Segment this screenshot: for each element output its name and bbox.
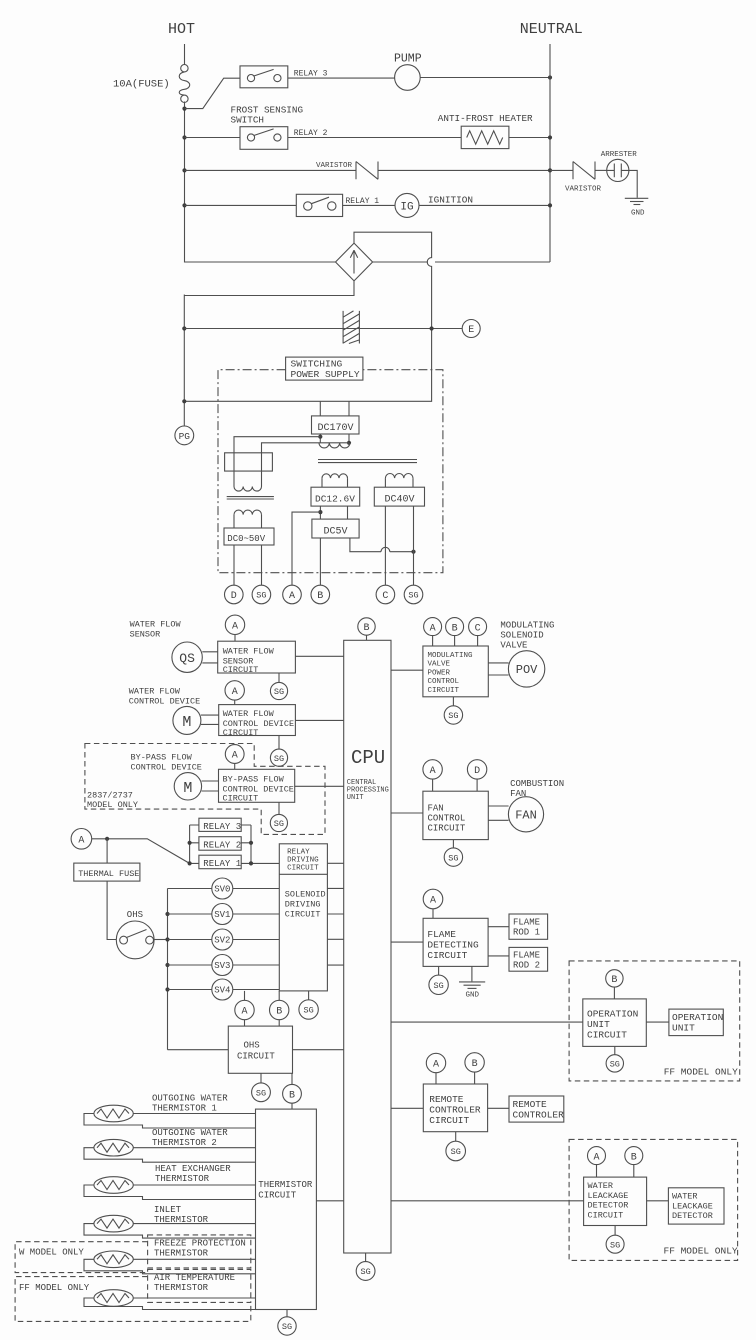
svg-text:RELAY: RELAY bbox=[287, 849, 310, 857]
svg-text:NEUTRAL: NEUTRAL bbox=[520, 21, 583, 38]
thermistor TH5 bbox=[94, 1251, 133, 1268]
terminal A mod bbox=[424, 618, 442, 636]
svg-text:THERMISTOR: THERMISTOR bbox=[258, 1180, 313, 1190]
wire CPU to fan box bbox=[391, 812, 423, 814]
svg-text:UNIT: UNIT bbox=[672, 1023, 695, 1034]
terminal B ohs bbox=[270, 1000, 289, 1019]
flame rod 1 box bbox=[509, 914, 548, 939]
wire NEUTRAL column bbox=[549, 44, 551, 262]
terminal A flame bbox=[423, 889, 443, 909]
wire TH1 loop bbox=[84, 1114, 256, 1129]
wire relay1 to IG bbox=[343, 204, 395, 206]
modulating valve power control circuit box bbox=[423, 646, 488, 697]
wire E line bbox=[184, 328, 462, 330]
junction relay left bus r2 bbox=[188, 841, 192, 845]
wire ohs box to SG below bbox=[260, 1073, 262, 1083]
terminal A wfcd bbox=[225, 681, 244, 700]
wire M bypass to box double bbox=[202, 781, 219, 791]
label DC170V box bbox=[312, 416, 360, 434]
svg-text:DC12.6V: DC12.6V bbox=[315, 494, 355, 505]
svg-text:B: B bbox=[631, 1152, 637, 1163]
svg-text:SWITCHING: SWITCHING bbox=[291, 359, 343, 370]
junction relay left bus r1 bbox=[188, 861, 192, 865]
svg-text:A: A bbox=[78, 836, 84, 847]
svg-text:COMBUSTION: COMBUSTION bbox=[510, 779, 564, 789]
svg-text:CIRCUIT: CIRCUIT bbox=[223, 793, 259, 803]
svg-text:CONTROLER: CONTROLER bbox=[429, 1105, 481, 1116]
junction E right vertical bbox=[430, 326, 434, 330]
water leackage detector box bbox=[668, 1188, 724, 1224]
svg-text:MODULATING: MODULATING bbox=[428, 652, 474, 660]
svg-text:SOLENOID: SOLENOID bbox=[285, 890, 326, 900]
svg-text:AIR TEMPERATURE: AIR TEMPERATURE bbox=[154, 1273, 235, 1283]
svg-text:A: A bbox=[289, 591, 295, 602]
svg-text:B: B bbox=[611, 975, 617, 986]
junction relay1 tap bbox=[182, 203, 186, 207]
svg-text:SG: SG bbox=[610, 1240, 620, 1250]
fan motor FAN bbox=[508, 797, 543, 832]
svg-text:DC5V: DC5V bbox=[324, 526, 348, 537]
water flow control device circuit box bbox=[219, 705, 296, 738]
svg-text:SV0: SV0 bbox=[214, 885, 230, 895]
wire D lead bbox=[233, 545, 235, 585]
svg-text:2837/2737: 2837/2737 bbox=[87, 791, 133, 801]
terminal SG wfcd bbox=[270, 749, 287, 766]
svg-text:W MODEL ONLY: W MODEL ONLY bbox=[19, 1248, 84, 1258]
wire pump to neutral bbox=[420, 77, 550, 79]
svg-text:MODULATING: MODULATING bbox=[500, 621, 554, 631]
transformer T1 secondary winding S2 bbox=[385, 474, 413, 479]
terminal C1 bbox=[376, 585, 395, 604]
wire flame box to rod2 bbox=[488, 955, 509, 957]
wire SV3 row bbox=[168, 964, 280, 966]
svg-text:RELAY 2: RELAY 2 bbox=[203, 841, 241, 851]
svg-text:CIRCUIT: CIRCUIT bbox=[285, 910, 321, 920]
dashed box 2837/2737 model only bbox=[85, 744, 325, 835]
junction neutral pump bbox=[548, 75, 552, 79]
wire T2 top lead right bbox=[262, 443, 350, 453]
svg-text:VALVE: VALVE bbox=[500, 641, 527, 651]
wire thermal fuse top lead bbox=[106, 839, 108, 863]
terminal D fan bbox=[467, 760, 486, 779]
wire neutral to varistor2 bbox=[550, 169, 573, 171]
by-pass flow control device circuit box bbox=[219, 769, 295, 803]
svg-text:A: A bbox=[430, 766, 436, 777]
wire DC line to DC170V right bbox=[348, 401, 350, 416]
wire TH3 top bbox=[133, 1184, 255, 1186]
terminal SG flame bbox=[429, 975, 448, 994]
junction T1 right tap bbox=[347, 441, 351, 445]
junction neutral heater bbox=[548, 135, 552, 139]
label DC0~50V box bbox=[224, 528, 274, 545]
junction A tap bbox=[318, 510, 322, 514]
junction SV bus sv4 bbox=[165, 987, 169, 991]
svg-text:SG: SG bbox=[448, 853, 458, 863]
svg-text:SG: SG bbox=[408, 591, 418, 601]
valve POV bbox=[508, 651, 544, 687]
transformer T1 core bbox=[318, 460, 417, 463]
svg-text:CPU: CPU bbox=[351, 747, 385, 769]
svg-text:DETECTING: DETECTING bbox=[427, 940, 479, 951]
wire T1 primary leads bbox=[320, 434, 349, 443]
arrow in diamond bbox=[350, 250, 357, 273]
wire DC line to DC170V left bbox=[319, 401, 321, 416]
wire A to relays bbox=[92, 839, 199, 864]
label DC5V box bbox=[312, 519, 359, 538]
wire varistor to neutral bbox=[378, 169, 550, 171]
svg-text:VARISTOR: VARISTOR bbox=[565, 186, 602, 194]
junction T1 left tap bbox=[318, 435, 322, 439]
svg-text:A: A bbox=[433, 1060, 439, 1071]
wire mod box to SG bbox=[452, 697, 454, 706]
svg-text:FF MODEL ONLY: FF MODEL ONLY bbox=[664, 1067, 738, 1078]
junction relay3 tap bbox=[182, 107, 186, 111]
sensor QS bbox=[172, 642, 202, 672]
dashed box freeze protection label bbox=[148, 1235, 251, 1268]
wire QS to box double bbox=[202, 652, 217, 663]
svg-text:THERMISTOR: THERMISTOR bbox=[154, 1283, 209, 1293]
transformer T2 primary block bbox=[225, 453, 273, 471]
junction SV bus sv2 bbox=[165, 937, 169, 941]
svg-text:E: E bbox=[468, 325, 474, 336]
svg-text:FAN: FAN bbox=[428, 804, 444, 814]
svg-text:OUTGOING WATER: OUTGOING WATER bbox=[152, 1128, 228, 1138]
wire AD to fan box bbox=[433, 779, 478, 791]
terminal SG driver bbox=[299, 1000, 318, 1019]
wire driver to CPU row3 bbox=[327, 913, 343, 915]
arrester bbox=[607, 159, 629, 181]
svg-text:CIRCUIT: CIRCUIT bbox=[427, 950, 467, 961]
wire A to ohs circuit bbox=[244, 1020, 246, 1026]
relay driving and solenoid driving circuit box bbox=[279, 844, 327, 991]
svg-text:ARRESTER: ARRESTER bbox=[601, 151, 638, 159]
wire flame box to SG bbox=[438, 966, 440, 975]
svg-text:C: C bbox=[382, 591, 388, 602]
wire CPU to flame box bbox=[391, 941, 423, 943]
wire TH4 top bbox=[133, 1223, 255, 1225]
svg-text:PUMP: PUMP bbox=[394, 53, 422, 66]
wire fan box to SG bbox=[452, 840, 454, 848]
transformer T2 core bbox=[227, 497, 274, 499]
wire S1 leads bbox=[322, 478, 348, 487]
junction E left bbox=[182, 326, 186, 330]
wire neutral bottom to jump bbox=[373, 261, 550, 263]
wire varistor2 to arrester bbox=[595, 169, 607, 171]
wire heater to neutral bbox=[509, 137, 550, 139]
wire wfs box to SG bbox=[278, 673, 280, 682]
junction varistor tap bbox=[182, 168, 186, 172]
svg-text:WATER FLOW: WATER FLOW bbox=[223, 646, 275, 656]
terminal B1 bbox=[311, 585, 330, 604]
svg-text:CIRCUIT: CIRCUIT bbox=[287, 864, 319, 872]
svg-text:IG: IG bbox=[400, 201, 413, 213]
terminal B above CPU bbox=[358, 618, 375, 635]
junction SV bus sv3 bbox=[165, 963, 169, 967]
svg-text:DC0~50V: DC0~50V bbox=[227, 534, 265, 544]
svg-text:SWITCH: SWITCH bbox=[231, 115, 264, 126]
terminal B thermistor bbox=[283, 1084, 302, 1103]
wire CPU to leakage box bbox=[391, 1200, 584, 1202]
switch OHS bbox=[116, 921, 154, 959]
svg-text:WATER: WATER bbox=[588, 1181, 614, 1191]
wire IG to neutral bbox=[419, 204, 550, 206]
svg-text:MODEL ONLY: MODEL ONLY bbox=[87, 800, 138, 810]
CPU box U1 bbox=[344, 640, 391, 1253]
svg-text:POWER: POWER bbox=[428, 669, 451, 677]
wire driver to CPU row4 bbox=[327, 938, 343, 940]
svg-text:M: M bbox=[182, 714, 191, 731]
thermistor TH1 bbox=[94, 1105, 133, 1122]
svg-text:SOLENOID: SOLENOID bbox=[500, 631, 543, 641]
svg-text:CIRCUIT: CIRCUIT bbox=[588, 1210, 624, 1220]
terminal SG2 bbox=[404, 585, 423, 604]
thermistor TH4 bbox=[94, 1215, 133, 1232]
wire TH2 loop bbox=[84, 1148, 256, 1163]
terminal SG1 bbox=[252, 585, 271, 604]
svg-text:POV: POV bbox=[516, 663, 538, 677]
svg-text:REMOTE: REMOTE bbox=[429, 1094, 464, 1105]
flame detecting circuit box bbox=[423, 918, 488, 966]
junction relay right bus r2 bbox=[249, 841, 253, 845]
motor M wfcd bbox=[173, 706, 201, 734]
wire relay1 line bbox=[185, 204, 297, 206]
svg-text:CIRCUIT: CIRCUIT bbox=[237, 1052, 275, 1062]
fuse 10A bbox=[179, 65, 190, 103]
wire B lead bbox=[319, 506, 321, 585]
svg-text:B: B bbox=[276, 1007, 282, 1018]
wire TH5 loop bbox=[84, 1259, 256, 1274]
wire relay3 tap bbox=[185, 78, 241, 108]
junction relay right bus r1 bbox=[249, 861, 253, 865]
wire operation circuit to operation unit bbox=[646, 1021, 669, 1023]
svg-text:GND: GND bbox=[631, 210, 645, 218]
label DC40V box bbox=[374, 487, 424, 506]
wire SV bus vertical bbox=[167, 889, 169, 1050]
svg-text:ROD 2: ROD 2 bbox=[513, 960, 540, 970]
terminal SG leakage bbox=[606, 1235, 624, 1253]
svg-text:ANTI-FROST HEATER: ANTI-FROST HEATER bbox=[438, 113, 533, 124]
wire OHS to SV bus bbox=[154, 939, 167, 941]
svg-text:SG: SG bbox=[274, 819, 284, 829]
svg-text:D: D bbox=[474, 766, 480, 777]
wire wfcd box to SG bbox=[278, 736, 280, 750]
wire flame box to ground bbox=[471, 966, 473, 981]
svg-text:SG: SG bbox=[448, 711, 458, 721]
svg-text:WATER FLOW: WATER FLOW bbox=[129, 687, 181, 697]
transformer T1 primary winding bbox=[319, 443, 350, 448]
wire SV0 row bbox=[168, 888, 280, 890]
wire mod box to POV double bbox=[488, 663, 508, 675]
svg-text:ROD 1: ROD 1 bbox=[513, 928, 540, 938]
terminal E bbox=[462, 320, 480, 338]
svg-text:B: B bbox=[363, 623, 369, 634]
svg-text:OPERATION: OPERATION bbox=[587, 1009, 638, 1020]
solenoid valve SV1 bbox=[212, 904, 233, 925]
svg-text:DC170V: DC170V bbox=[318, 423, 354, 434]
relay RELAY1 contacts bbox=[296, 194, 342, 216]
svg-text:D: D bbox=[231, 591, 237, 602]
svg-text:CIRCUIT: CIRCUIT bbox=[223, 728, 259, 738]
wire remote box to SG bbox=[455, 1132, 457, 1142]
fan control circuit box bbox=[423, 791, 488, 839]
wire CPU to operation box bbox=[391, 1021, 583, 1023]
svg-text:IGNITION: IGNITION bbox=[428, 195, 473, 206]
svg-text:B: B bbox=[317, 591, 323, 602]
svg-text:RELAY 1: RELAY 1 bbox=[203, 859, 241, 869]
wire flame box to rod1 bbox=[488, 926, 509, 928]
flame rod 2 box bbox=[509, 947, 548, 971]
wire A to flame box bbox=[432, 909, 434, 919]
wire CPU to mod box bbox=[391, 669, 423, 671]
thermistor TH2 bbox=[94, 1139, 133, 1156]
diamond water flow device bbox=[336, 243, 373, 281]
wire TH4 loop bbox=[84, 1224, 256, 1239]
svg-text:CIRCUIT: CIRCUIT bbox=[258, 1191, 296, 1201]
svg-text:UNIT: UNIT bbox=[347, 794, 364, 802]
terminal A wfs bbox=[225, 615, 244, 634]
wire leakage box to SG bbox=[614, 1226, 616, 1236]
solenoid valve SV4 bbox=[212, 979, 233, 1000]
wire remote circuit to remote controler bbox=[488, 1107, 509, 1109]
svg-text:WATER: WATER bbox=[672, 1192, 698, 1202]
dashed box FF MODEL ONLY thermistor bbox=[15, 1277, 251, 1322]
wire relay right bus bbox=[241, 825, 279, 863]
ignition device IG bbox=[395, 193, 419, 217]
terminal A relay feed bbox=[71, 829, 92, 850]
svg-text:CONTROL DEVICE: CONTROL DEVICE bbox=[129, 697, 200, 707]
wire HOT column to diamond left bbox=[185, 102, 336, 263]
terminal A bypass bbox=[225, 745, 244, 764]
wire DC5V bottom lead with jump bbox=[350, 538, 414, 552]
svg-text:FLAME: FLAME bbox=[513, 950, 540, 960]
svg-text:A: A bbox=[232, 751, 238, 762]
wire CPU to remote box bbox=[391, 1107, 423, 1109]
ground GND bbox=[625, 198, 649, 204]
svg-text:DETECTOR: DETECTOR bbox=[672, 1211, 713, 1221]
svg-text:GND: GND bbox=[466, 992, 480, 1000]
varistor RV2 bbox=[573, 162, 595, 180]
svg-text:SV3: SV3 bbox=[214, 961, 230, 971]
relay RELAY2 frost sensing switch bbox=[240, 127, 288, 150]
wire bypass to CPU bbox=[295, 785, 344, 787]
wire T2 top lead left bbox=[234, 437, 320, 453]
transformer T2 winding W2 bbox=[234, 510, 262, 515]
svg-text:M: M bbox=[183, 780, 192, 797]
wire SV1 row bbox=[168, 913, 280, 915]
svg-text:10A(FUSE): 10A(FUSE) bbox=[113, 79, 170, 91]
svg-text:INLET: INLET bbox=[154, 1205, 182, 1215]
svg-text:CONTROL DEVICE: CONTROL DEVICE bbox=[131, 763, 202, 773]
svg-text:FLAME: FLAME bbox=[427, 929, 456, 940]
svg-text:VALVE: VALVE bbox=[428, 661, 451, 669]
svg-text:HOT: HOT bbox=[168, 21, 195, 38]
svg-text:SG: SG bbox=[274, 687, 284, 697]
terminal PG bbox=[175, 426, 194, 445]
wire A to wfs box bbox=[234, 635, 236, 642]
svg-text:FREEZE PROTECTION: FREEZE PROTECTION bbox=[154, 1239, 246, 1249]
thermistor circuit box bbox=[256, 1109, 317, 1309]
svg-text:FF MODEL ONLY: FF MODEL ONLY bbox=[664, 1246, 738, 1257]
solenoid valve SV2 bbox=[212, 929, 233, 950]
label DC12.6V box bbox=[311, 487, 360, 506]
terminal SG fan bbox=[444, 848, 462, 866]
wire wfs to CPU bbox=[295, 655, 343, 657]
wire diamond bottom loop bbox=[184, 281, 354, 296]
thermal fuse box bbox=[74, 863, 140, 881]
dash-dot PSU boundary bbox=[218, 370, 443, 573]
wire TH1 top bbox=[133, 1113, 255, 1115]
terminal C mod bbox=[469, 618, 487, 636]
svg-text:A: A bbox=[232, 622, 238, 633]
wire B to operation box bbox=[613, 987, 615, 999]
wire T2 mid leads bbox=[234, 471, 262, 486]
wire AB to remote box bbox=[436, 1072, 475, 1084]
water flow sensor circuit box bbox=[218, 641, 296, 675]
ground flame GND bbox=[459, 982, 485, 989]
wire ohs circuit to CPU bbox=[293, 1049, 344, 1051]
wire B to CPU bbox=[366, 635, 368, 640]
junction DC line left bbox=[182, 399, 186, 403]
wire varistor line bbox=[185, 169, 357, 171]
wire driver box to A bbox=[244, 991, 246, 1000]
wire TH5 top bbox=[133, 1258, 255, 1260]
svg-text:CIRCUIT: CIRCUIT bbox=[429, 1115, 469, 1126]
water leackage detector circuit box bbox=[584, 1177, 647, 1225]
varistor RV1 bbox=[356, 162, 378, 180]
svg-text:C: C bbox=[475, 623, 481, 634]
svg-text:QS: QS bbox=[179, 651, 195, 666]
relay box RELAY 2 bbox=[199, 837, 241, 851]
svg-text:CONTROL: CONTROL bbox=[428, 678, 460, 686]
dashed box air temperature label bbox=[148, 1269, 251, 1302]
svg-text:LEACKAGE: LEACKAGE bbox=[588, 1191, 629, 1201]
svg-text:PG: PG bbox=[179, 431, 191, 442]
terminal B leakage bbox=[625, 1147, 643, 1165]
terminal SG bypass bbox=[270, 814, 287, 831]
wire S2 leads bbox=[385, 478, 413, 487]
operation unit box bbox=[669, 1009, 723, 1036]
terminal SG wfs bbox=[270, 682, 287, 699]
wire relay left bus bbox=[190, 825, 199, 863]
svg-text:POWER SUPPLY: POWER SUPPLY bbox=[291, 369, 360, 380]
svg-text:SG: SG bbox=[433, 981, 443, 991]
wire TH2 top bbox=[133, 1147, 255, 1149]
terminal SG operation bbox=[606, 1055, 623, 1072]
terminal A ohs bbox=[235, 1000, 254, 1019]
wire operation box to SG bbox=[614, 1046, 616, 1054]
svg-text:SG: SG bbox=[360, 1267, 370, 1277]
terminal A fan bbox=[423, 760, 442, 779]
terminal A leakage bbox=[588, 1147, 606, 1165]
wire thermal fuse to OHS bbox=[107, 881, 116, 939]
remote controler circuit box bbox=[423, 1084, 487, 1132]
wire bypass box to SG bbox=[278, 802, 280, 814]
svg-text:A: A bbox=[241, 1007, 247, 1018]
terminal D bbox=[225, 585, 244, 604]
svg-text:SG: SG bbox=[274, 754, 284, 764]
svg-text:BY-PASS FLOW: BY-PASS FLOW bbox=[223, 774, 285, 784]
svg-text:DRIVING: DRIVING bbox=[285, 900, 321, 910]
pump motor bbox=[395, 65, 421, 91]
svg-text:SG: SG bbox=[451, 1147, 461, 1157]
svg-text:SENSOR: SENSOR bbox=[130, 630, 161, 640]
wire TH6 loop bbox=[84, 1298, 256, 1310]
transformer T2 winding W1 bbox=[234, 487, 262, 492]
junction neutral ignition bbox=[548, 203, 552, 207]
terminal SG thermistor bbox=[278, 1317, 296, 1335]
wire DC5V right lead upper bbox=[347, 506, 349, 519]
svg-text:DC40V: DC40V bbox=[385, 495, 415, 506]
